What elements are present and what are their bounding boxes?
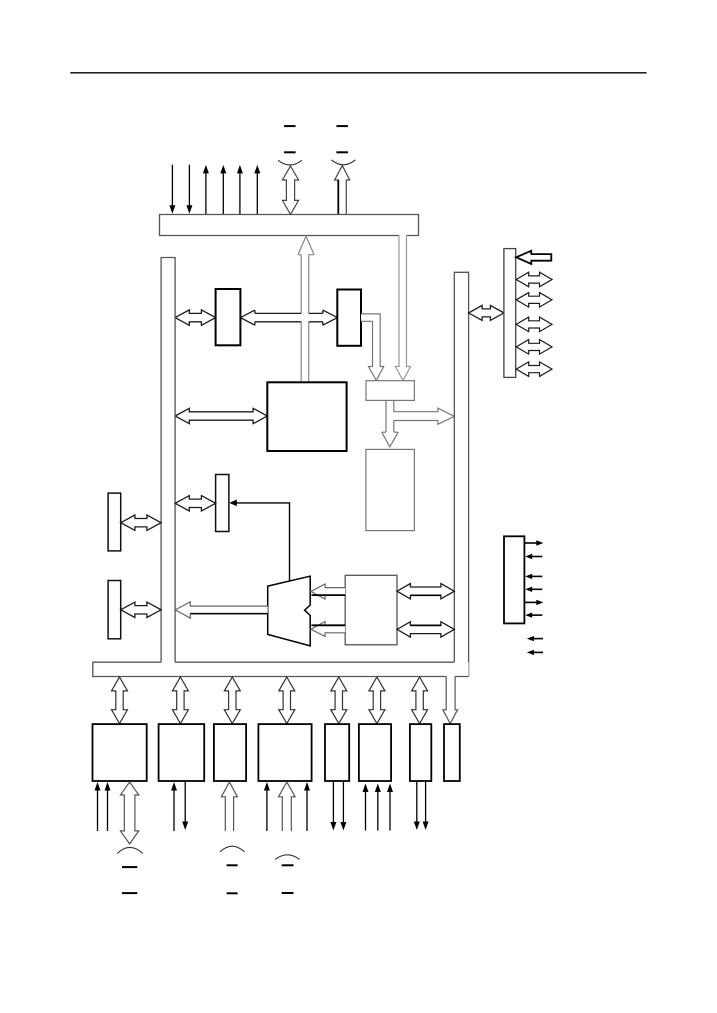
strip1 double arrow 5 <box>516 362 552 377</box>
mux-to-bus wire <box>191 613 268 615</box>
input arrow 2 (down) <box>188 165 190 207</box>
cpu box <box>267 382 346 451</box>
strip2 arrow 1 (out) <box>524 542 537 544</box>
double arrow E to bus lower <box>397 622 454 637</box>
output arrow 2 (up) <box>222 172 224 214</box>
double arrow bus to register A <box>175 310 216 325</box>
latch-to-bus right arrow <box>394 408 455 424</box>
rotated paren group 1 <box>278 160 302 165</box>
left port box 2 <box>108 581 121 639</box>
bar down arrow to box8 <box>443 677 458 724</box>
port box 5 <box>325 724 349 781</box>
box3 dash a <box>227 864 238 866</box>
right internal bus <box>454 272 468 676</box>
double arrow register A to register B <box>240 310 255 325</box>
strip1 double arrow 2 <box>516 293 552 308</box>
output arrow 1 (up) <box>205 172 207 214</box>
box D (memory) <box>366 449 415 530</box>
strip2 arrow 4 (in) <box>531 588 542 590</box>
box5 out arrow b <box>342 781 344 823</box>
cpu-to-bar arrow shaft lower <box>301 322 309 383</box>
double arrow bus to pointer register <box>175 496 216 511</box>
box4 dash b <box>282 892 294 894</box>
box4 dash a <box>282 864 294 866</box>
bar double arrow 4 <box>279 677 295 724</box>
box7 out arrow b <box>425 781 427 823</box>
bar double arrow 1 <box>112 677 128 724</box>
strip1 double arrow 1 <box>516 272 552 287</box>
latch C box <box>366 381 414 401</box>
bar double arrow 7 <box>412 677 428 724</box>
register B elbow arrow to latch <box>361 314 384 381</box>
box1 dash a <box>122 866 137 868</box>
strip2 arrow 6 (in) <box>531 614 542 616</box>
pointer register (thin) <box>216 475 229 532</box>
double arrow box1 to bus <box>121 515 161 530</box>
bar double arrow 6 <box>369 677 385 724</box>
strip2 arrow 5 (out) <box>524 601 537 603</box>
E-to-mux hollow arrow 1 <box>311 584 345 599</box>
hollow updown arrow (group 1) <box>282 166 298 214</box>
box6 in arrow a <box>365 791 367 831</box>
double arrow box2 to bus <box>121 602 161 617</box>
box1 hollow updown arrow <box>120 782 138 844</box>
left port box 1 <box>108 493 121 551</box>
cpu-to-bar arrow shaft upper <box>301 255 309 314</box>
E to bus lower wire <box>411 624 442 626</box>
box4 in arrow a <box>266 790 268 832</box>
box7 out arrow a <box>416 781 418 823</box>
port box 6 <box>359 724 391 781</box>
box3 dash b <box>227 892 238 894</box>
box4 paren <box>275 855 300 860</box>
E-to-mux hollow arrow 2 <box>311 622 345 637</box>
signal-name overbar group 1 dash b <box>284 151 296 153</box>
top port bus bar <box>160 215 419 236</box>
box4 hollow up arrow <box>279 782 296 831</box>
output arrow 4 (up) <box>256 172 258 214</box>
box3 hollow up arrow <box>221 782 237 831</box>
input arrow 1 (down) <box>171 165 173 207</box>
output arrow 3 (up) <box>239 172 241 214</box>
box1 in arrow b <box>107 790 109 832</box>
strip1 double arrow 3 <box>516 317 552 332</box>
strip1 double arrow 4 <box>516 340 552 355</box>
register A box <box>216 289 241 345</box>
box6 in arrow b <box>377 791 379 831</box>
wire from mux top <box>237 503 290 581</box>
bar double arrow 5 <box>331 677 347 724</box>
box6 in arrow c <box>389 791 391 831</box>
strip2 arrow 2 (in) <box>531 556 542 558</box>
bar double arrow 2 <box>172 677 188 724</box>
box4 in arrow b <box>306 790 308 832</box>
hollow up arrow (group 2) <box>335 166 350 215</box>
double arrow bus to strip1 <box>469 305 504 320</box>
port box 4 <box>258 724 311 781</box>
port strip 1 <box>504 249 516 378</box>
port box 7 <box>410 724 431 781</box>
latch-to-D arrow head <box>382 432 398 447</box>
strip2 lower arrow 1 (in) <box>533 638 543 640</box>
box E (program counter) <box>345 575 397 645</box>
double arrow E to bus upper <box>397 584 454 599</box>
bottom port bus bar outline <box>93 662 469 676</box>
port strip 2 <box>504 536 524 623</box>
strip2 arrow 3 (in) <box>531 575 542 577</box>
box5 out arrow a <box>332 781 334 823</box>
top rule line <box>70 72 646 74</box>
box3 paren <box>220 846 245 852</box>
box2 in arrow <box>173 790 175 832</box>
latch-to-D arrow shaft <box>386 400 394 432</box>
E-to-mux wire 2 <box>312 624 346 626</box>
box2 out arrow <box>184 781 186 823</box>
hollow up arrow (group 2) dark left edge <box>337 180 339 214</box>
mux-to-bus hollow arrow <box>175 602 267 618</box>
port box 3 <box>214 724 246 781</box>
strip2 lower arrow 2 (in) <box>533 651 543 653</box>
arrow into pointer register <box>236 502 237 504</box>
bottom port bus bar fill <box>93 662 469 676</box>
cpu-to-bar arrow head <box>298 236 314 255</box>
box1 in arrow a <box>97 790 99 832</box>
signal-name overbar group 2 dash b <box>336 151 348 153</box>
left internal bus <box>161 258 175 663</box>
box1 paren <box>117 847 143 853</box>
double arrow bus to cpu <box>175 408 267 423</box>
port box 2 <box>159 724 205 781</box>
bar-to-latch hollow arrow <box>395 236 410 381</box>
port box 1 <box>93 724 147 781</box>
port box 8 <box>444 724 460 781</box>
register B box <box>337 290 361 346</box>
E to bus upper wire <box>411 594 442 596</box>
strip1 input arrow <box>516 251 551 264</box>
E-to-mux wire 1 <box>312 594 346 596</box>
box1 dash b <box>122 892 137 894</box>
bar double arrow 3 <box>224 677 240 724</box>
mux (program address) <box>268 576 311 646</box>
rotated paren group 2 <box>331 160 355 165</box>
signal-name overbar group 1 dash a <box>284 125 296 127</box>
signal-name overbar group 2 dash a <box>336 125 348 127</box>
